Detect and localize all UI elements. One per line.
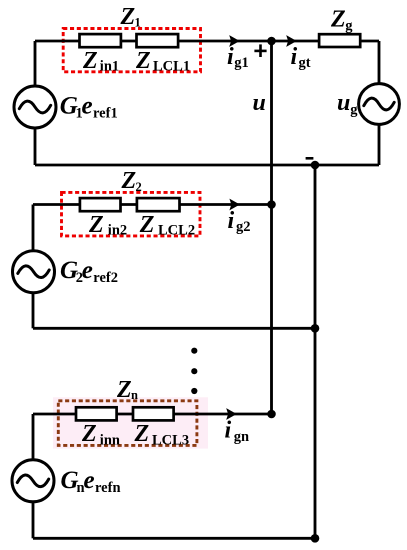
svg-text:Z: Z	[82, 48, 98, 74]
svg-text:Z: Z	[121, 168, 137, 194]
svg-text:Z: Z	[88, 212, 104, 238]
svg-text:Z: Z	[139, 212, 155, 238]
svg-text:u: u	[337, 90, 350, 116]
svg-text:i: i	[225, 418, 232, 444]
svg-text:LCL2: LCL2	[158, 223, 195, 239]
svg-text:u: u	[253, 90, 266, 116]
svg-text:ref1: ref1	[93, 105, 118, 121]
svg-text:refn: refn	[95, 480, 121, 496]
svg-text:g1: g1	[234, 55, 249, 71]
svg-text:ref2: ref2	[93, 270, 118, 286]
svg-text:in2: in2	[108, 223, 127, 239]
svg-text:i: i	[291, 44, 298, 70]
svg-text:g2: g2	[236, 219, 251, 235]
svg-text:1: 1	[135, 16, 141, 30]
svg-text:e: e	[82, 92, 93, 119]
svg-text:i: i	[227, 44, 234, 70]
svg-text:i: i	[228, 208, 235, 234]
svg-text:LCL1: LCL1	[153, 59, 190, 75]
svg-text:n: n	[131, 388, 138, 402]
svg-text:Z: Z	[134, 421, 150, 447]
svg-text:Z: Z	[120, 4, 136, 30]
svg-text:e: e	[82, 257, 93, 284]
svg-text:Z: Z	[330, 6, 346, 32]
svg-text:in1: in1	[100, 59, 119, 75]
svg-text:Z: Z	[116, 377, 132, 403]
svg-text:g: g	[345, 18, 353, 34]
svg-text:gt: gt	[299, 55, 311, 71]
svg-text:gn: gn	[234, 429, 249, 445]
svg-text:g: g	[350, 102, 358, 118]
svg-text:2: 2	[136, 180, 142, 194]
svg-text:LCL3: LCL3	[152, 432, 189, 448]
svg-text:Z: Z	[135, 48, 151, 74]
svg-text:inn: inn	[100, 432, 120, 448]
svg-text:e: e	[84, 467, 95, 494]
svg-text:Z: Z	[81, 421, 97, 447]
